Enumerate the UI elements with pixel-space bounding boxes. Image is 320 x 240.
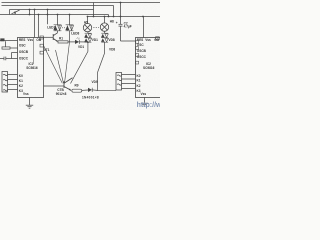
ground IC2	[141, 98, 148, 107]
wire XP pin 4	[122, 88, 136, 90]
IC2 box	[136, 38, 162, 98]
IC2 pin box 3	[136, 54, 139, 57]
resistor R2	[2, 47, 10, 49]
IC2 pin box 4	[136, 61, 139, 64]
wire vertical x11.5	[11, 53, 13, 59]
wire bus L2	[2, 5, 114, 7]
IC1 pin box out2	[40, 44, 44, 47]
wire OSCB stub	[12, 52, 18, 54]
svg-text:RES: RES	[137, 38, 143, 42]
svg-text:K2: K2	[137, 84, 141, 88]
svg-text:Vss: Vss	[141, 92, 147, 96]
svg-text:VT1: VT1	[44, 48, 50, 52]
svg-text:RES: RES	[19, 38, 25, 42]
wire bus L5	[88, 16, 161, 18]
wire bus L4	[0, 14, 109, 16]
IC1 pin box out3	[40, 51, 44, 54]
wire lamp string 2 down	[98, 42, 117, 90]
wire OB to VT1 base	[44, 36, 54, 38]
lamp H8	[100, 23, 108, 31]
svg-text:9012×8: 9012×8	[56, 92, 67, 96]
wire L5 to IC2 Vss pin	[143, 17, 145, 38]
svg-text:R1: R1	[59, 37, 63, 41]
wire XP pin 1	[122, 74, 136, 76]
svg-text:H8: H8	[110, 19, 114, 23]
svg-text:Vss: Vss	[23, 92, 29, 96]
dashes between LED pairs	[62, 27, 65, 29]
wire RES left	[0, 40, 18, 42]
wire IC1 out diagonal 1	[44, 46, 63, 84]
transistor CTB	[64, 78, 73, 90]
svg-text:K0: K0	[137, 74, 141, 78]
IC1 pin box OB	[40, 36, 44, 39]
switch S	[12, 10, 20, 14]
connector XS left	[2, 72, 8, 93]
resistor R9	[72, 89, 82, 92]
dashes between lamps	[93, 26, 99, 28]
wire vertical x120.5 top	[120, 3, 122, 25]
svg-text:SC9816: SC9816	[26, 66, 38, 70]
wire R1 to LED9	[68, 41, 75, 43]
svg-text:S: S	[14, 11, 16, 15]
component blob left of RES	[0, 38, 4, 41]
ground IC1	[26, 98, 33, 109]
wire XS pin 4	[8, 89, 18, 91]
wire VT1 collector up	[57, 31, 59, 33]
wire XP pin 2	[122, 78, 136, 80]
capacitor C2	[119, 24, 123, 26]
svg-text:OSCC: OSCC	[137, 55, 147, 59]
wire vertical x47.5	[47, 10, 49, 25]
transistor VT1	[53, 33, 57, 42]
wire node to CTB diagonal 3	[65, 42, 70, 83]
connector XP right	[116, 73, 122, 91]
diode VD9	[88, 88, 92, 92]
wire L4 to IC1 OB pin	[38, 15, 40, 38]
IC2 pin box 2	[136, 47, 139, 50]
svg-text:VD1: VD1	[92, 38, 98, 42]
wire vertical x29.5	[29, 10, 31, 15]
IC2 pin box 1	[136, 41, 139, 44]
wire pair2 bottom down	[69, 31, 71, 42]
junction dots	[29, 2, 144, 44]
wire XS pin 3	[8, 84, 18, 86]
svg-text:VD8: VD8	[109, 38, 115, 42]
wire XS pin 2	[8, 79, 18, 81]
lamp H5 top wire	[87, 17, 89, 24]
IC1 box	[18, 38, 44, 98]
svg-text:OB: OB	[154, 38, 159, 42]
wire R9 to VD9	[82, 89, 88, 91]
svg-text:SC9816: SC9816	[143, 66, 155, 70]
wire IC1 to CTB base	[44, 85, 65, 87]
resistor R1	[58, 41, 68, 43]
wire XS pin 1	[8, 74, 18, 76]
wire inner vertical IC1	[33, 38, 35, 65]
wire vertical L1 to L5 x93.5	[93, 3, 95, 17]
svg-text:LED1: LED1	[47, 26, 55, 30]
svg-text:R9: R9	[75, 84, 79, 88]
svg-text:OSC: OSC	[19, 44, 27, 48]
wire IC1 out diagonal 2	[56, 50, 64, 83]
svg-text:H5: H5	[84, 20, 88, 24]
wire VD9 to node	[92, 89, 97, 92]
svg-text:+: +	[116, 21, 118, 25]
svg-text:VD1: VD1	[78, 45, 84, 49]
wire CTB emitter to R9	[70, 89, 72, 92]
diode pair stack VD8 under lamp H8	[101, 31, 108, 42]
svg-text:K0: K0	[19, 74, 23, 78]
wire bus L1	[2, 2, 161, 4]
svg-text:4.7µF: 4.7µF	[124, 25, 132, 29]
LED9 diode	[75, 37, 80, 44]
lamp H8 top wire	[104, 17, 106, 24]
wire L3 to IC1 Vss pin	[34, 10, 36, 38]
svg-text:VD9: VD9	[92, 80, 98, 84]
svg-text:OSCB: OSCB	[19, 50, 29, 54]
svg-text:K1: K1	[137, 79, 141, 83]
svg-text:Vss: Vss	[145, 38, 151, 42]
LED pair 2	[65, 25, 73, 31]
LED pair 1 drop wires	[58, 15, 70, 25]
lamp H5	[83, 23, 91, 31]
diode pair stack VD1 under lamp H5	[84, 32, 91, 43]
wire bus L3	[10, 9, 94, 11]
wire XP pin 3	[122, 83, 136, 85]
svg-text:Vss: Vss	[27, 38, 33, 42]
wire LED9 to node	[79, 41, 88, 43]
svg-text:K1: K1	[19, 79, 23, 83]
svg-text:OB: OB	[36, 38, 41, 42]
wire C2 down to IC2	[121, 26, 136, 41]
svg-text:http://w: http://w	[137, 102, 160, 109]
svg-text:OSCC: OSCC	[19, 56, 29, 60]
IC2 pin box OB	[156, 37, 160, 40]
svg-text:LED8: LED8	[71, 32, 79, 36]
svg-text:VD8: VD8	[109, 48, 115, 52]
svg-text:1N4001×8: 1N4001×8	[82, 96, 99, 100]
LED pair 1	[53, 25, 61, 31]
svg-text:K2: K2	[19, 84, 23, 88]
capacitor C1	[0, 57, 18, 61]
wire R2 to OSC	[10, 47, 18, 49]
wire vertical L2 to L5 x113.5	[113, 6, 115, 17]
wire lamp string 1 down	[71, 42, 88, 83]
wire vertical x5.5	[5, 41, 7, 47]
wire vertical L4 to L5 x108.5	[108, 15, 110, 17]
wire vertical x9.5	[9, 10, 11, 15]
